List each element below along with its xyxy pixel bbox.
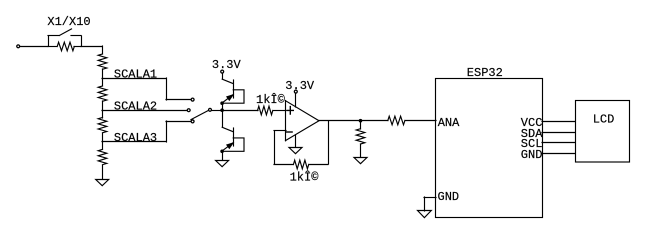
switch SW1 X1/X10	[59, 29, 71, 36]
svg-text:GND: GND	[521, 148, 543, 162]
wire GND	[542, 153, 575, 155]
wire	[222, 110, 224, 127]
svg-text:ESP32: ESP32	[467, 66, 503, 80]
wire	[222, 110, 258, 112]
wire	[81, 46, 102, 48]
junction dot node ANA	[359, 119, 363, 123]
wire	[222, 151, 224, 160]
wire tap SCALA3	[102, 141, 166, 143]
resistor R4	[102, 110, 104, 118]
wire tap SCALA1	[102, 78, 166, 80]
wire tap SCALA2	[102, 110, 187, 112]
svg-text:SCALA3: SCALA3	[114, 131, 157, 145]
wire	[360, 120, 388, 122]
switch SW2 blade	[191, 111, 208, 120]
resistor R3	[102, 78, 104, 86]
wire	[405, 120, 436, 122]
op-amp minus input	[286, 131, 292, 133]
IC U3 LCD box	[576, 101, 630, 163]
switch SW2 contact 1	[191, 98, 194, 101]
op-amp U1	[286, 101, 320, 141]
resistor R1	[57, 42, 74, 51]
ground GND3	[289, 148, 302, 154]
wire feedback	[274, 164, 293, 166]
svg-text:1kÎ©: 1kÎ©	[290, 170, 320, 185]
junction dot	[220, 150, 224, 154]
transistor Q2	[222, 127, 233, 131]
ground GND1	[96, 180, 109, 186]
transistor Q1	[222, 79, 233, 83]
wire SDA	[542, 132, 575, 134]
switch SW2 contact 2	[187, 109, 190, 112]
svg-text:LCD: LCD	[593, 112, 615, 126]
ground GND5	[418, 211, 432, 218]
wire	[222, 74, 224, 79]
wire	[20, 46, 48, 48]
resistor R8 shunt	[360, 121, 362, 129]
switch SW2 pole	[209, 108, 212, 111]
ground GND4	[354, 158, 367, 164]
wire VCC	[542, 121, 575, 123]
switch SW2 contact 3	[191, 120, 194, 123]
input terminal J1	[17, 45, 20, 48]
svg-text:3.3V: 3.3V	[212, 58, 242, 72]
svg-text:SCALA2: SCALA2	[114, 100, 157, 114]
wire	[319, 120, 360, 122]
wire	[295, 94, 297, 107]
svg-text:1kÎ©: 1kÎ©	[256, 92, 286, 107]
ground GND2	[216, 161, 229, 167]
svg-text:GND: GND	[438, 190, 460, 204]
wire	[295, 135, 297, 147]
resistor R5	[102, 142, 104, 149]
IC U2 ESP32 box	[436, 79, 543, 218]
wire	[212, 110, 222, 112]
svg-text:X1/X10: X1/X10	[47, 15, 90, 29]
junction dot	[220, 108, 224, 112]
wire GND pin	[424, 197, 436, 199]
resistor R7 feedback	[293, 160, 308, 169]
svg-text:ANA: ANA	[438, 116, 460, 130]
wire	[222, 103, 224, 110]
svg-text:3.3V: 3.3V	[285, 79, 315, 93]
wire SCL	[542, 142, 575, 144]
op-amp plus input	[287, 107, 293, 115]
svg-text:SCALA1: SCALA1	[114, 68, 157, 82]
wire feedback	[328, 121, 330, 164]
wire	[48, 36, 50, 46]
wire	[102, 46, 104, 54]
resistor R2	[98, 54, 107, 69]
resistor R9 series	[388, 116, 405, 125]
resistor R6	[258, 106, 273, 115]
wire	[273, 110, 286, 112]
junction dot	[220, 101, 224, 105]
